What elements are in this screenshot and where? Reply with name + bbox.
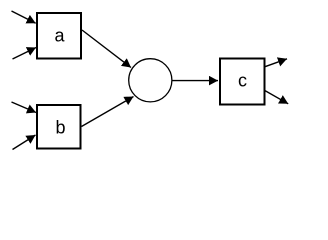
svg-text:a: a <box>54 25 65 45</box>
svg-text:c: c <box>238 71 247 91</box>
svg-text:b: b <box>55 118 65 138</box>
